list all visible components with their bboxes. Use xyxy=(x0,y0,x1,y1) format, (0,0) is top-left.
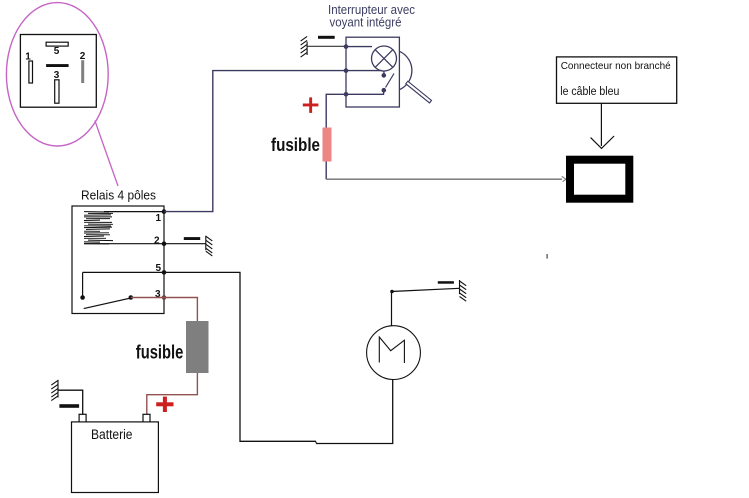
svg-text:Connecteur non branché: Connecteur non branché xyxy=(561,60,671,72)
svg-text:Relais 4 pôles: Relais 4 pôles xyxy=(81,187,156,202)
svg-text:1: 1 xyxy=(156,213,162,224)
svg-text:5: 5 xyxy=(156,263,162,274)
svg-text:5: 5 xyxy=(54,46,60,57)
svg-text:2: 2 xyxy=(154,236,160,247)
svg-text:fusible: fusible xyxy=(136,343,184,364)
svg-text:le câble bleu: le câble bleu xyxy=(560,86,619,98)
svg-text:fusible: fusible xyxy=(271,135,320,155)
svg-text:Batterie: Batterie xyxy=(91,427,133,442)
svg-text:3: 3 xyxy=(155,289,161,300)
svg-text:voyant intégré: voyant intégré xyxy=(330,16,402,30)
